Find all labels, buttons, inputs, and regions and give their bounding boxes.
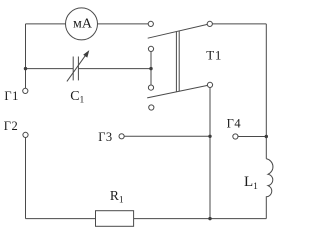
wire left vertical bus bbox=[25, 24, 27, 88]
T1 terminal circle secondary top bbox=[148, 46, 153, 51]
T1 terminal circle top-right bbox=[207, 21, 212, 26]
inductor L1 bbox=[266, 159, 273, 219]
wire right bus vertical bbox=[265, 24, 267, 159]
wire T1 secondary column bbox=[150, 52, 152, 86]
wire G4 horizontal bbox=[238, 136, 266, 138]
T1 terminal circle top-left bbox=[148, 21, 153, 26]
capacitor C1 arrow shaft bbox=[67, 52, 88, 81]
svg-text:Г3: Г3 bbox=[98, 130, 112, 144]
svg-text:Г4: Г4 bbox=[227, 116, 242, 130]
svg-text:мА: мА bbox=[73, 17, 93, 32]
junction node G3 line bbox=[208, 135, 211, 138]
junction node G4 line bbox=[265, 135, 268, 138]
T1 terminal circle secondary bottom bbox=[148, 85, 153, 90]
transformer T1 top winding diagonal bbox=[148, 24, 208, 38]
T1 terminal circle bottom-right bbox=[207, 82, 212, 87]
wire bottom left to resistor bbox=[26, 218, 96, 220]
transformer T1 bottom winding diagonal bbox=[147, 85, 207, 98]
svg-text:Г1: Г1 bbox=[4, 89, 18, 103]
wire top-left horizontal bbox=[26, 23, 66, 25]
transformer T1 core line right bbox=[178, 31, 180, 91]
svg-text:Т1: Т1 bbox=[206, 48, 222, 63]
junction node left bbox=[24, 67, 27, 70]
wire G2 vertical bbox=[25, 138, 27, 219]
wire G3 horizontal bbox=[124, 135, 210, 137]
capacitor C1 plate left bbox=[72, 57, 74, 81]
terminal G4 circle bbox=[233, 134, 238, 139]
transformer T1 core line left bbox=[175, 32, 177, 92]
terminal G2 circle bbox=[23, 132, 28, 137]
T1 terminal circle free bbox=[149, 105, 154, 110]
wire meter to T1 bbox=[97, 23, 148, 25]
resistor R1 bbox=[96, 211, 134, 227]
terminal G3 circle bbox=[119, 134, 124, 139]
svg-text:Г2: Г2 bbox=[4, 119, 18, 133]
wire capacitor branch right bbox=[78, 68, 151, 70]
wire resistor to right bus bottom bbox=[134, 218, 267, 220]
junction node T1 column bbox=[149, 67, 152, 70]
capacitor arrow head bbox=[83, 50, 89, 58]
wire mid vertical from T1 bottom-right bbox=[209, 88, 211, 219]
terminal G1 circle bbox=[23, 88, 28, 93]
junction node bottom wire bbox=[208, 217, 211, 220]
milliammeter mA bbox=[66, 8, 98, 40]
capacitor C1 plate right bbox=[77, 57, 79, 81]
wire capacitor branch left bbox=[26, 68, 74, 70]
wire T1 top-right to right bus bbox=[212, 23, 266, 25]
